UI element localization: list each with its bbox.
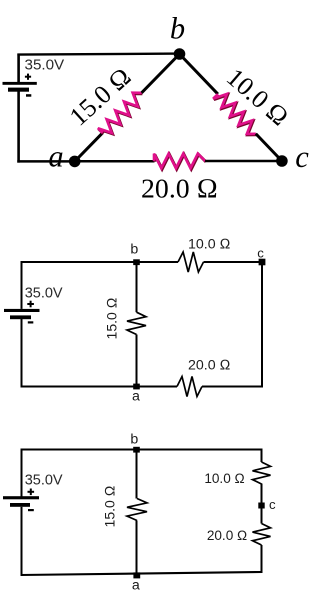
wire: top circuit, left vertical battery bottom lead [17, 92, 20, 163]
svg-text:a: a [132, 577, 140, 593]
svg-text:c: c [269, 497, 276, 512]
svg-text:20.0 Ω: 20.0 Ω [188, 358, 231, 374]
battery + terminal label (bottom circuit) [28, 489, 35, 496]
wire: top circuit, diagonal node a to 15-ohm resistor [75, 133, 103, 162]
svg-text:15.0 Ω: 15.0 Ω [64, 62, 137, 132]
wire: bottom circuit, right vertical top lead to 10-ohm resistor [261, 450, 263, 463]
wire: bottom circuit, top horizontal (battery to node b to right) [21, 449, 263, 451]
node a junction dot (top circuit) [69, 156, 81, 168]
resistor 15.0 ohm (top circuit, magenta zigzag on left diagonal) [98, 93, 142, 134]
svg-text:c: c [295, 140, 309, 174]
wire: middle circuit, left vertical battery top lead [21, 261, 23, 309]
resistor 20.0 ohm (top circuit, magenta zigzag) [154, 154, 206, 170]
resistor 20.0 ohm (bottom circuit, vertical zigzag) [253, 524, 271, 546]
wire: top circuit, bottom from node a to resistor [75, 160, 155, 163]
svg-text:35.0V: 35.0V [25, 472, 63, 488]
wire: middle circuit, center vertical node b to 15-ohm resistor [136, 262, 138, 312]
svg-text:20.0 Ω: 20.0 Ω [207, 528, 248, 543]
wire: middle circuit, center vertical 15-ohm resistor to node a [136, 335, 138, 387]
svg-text:10.0 Ω: 10.0 Ω [221, 63, 294, 132]
svg-text:c: c [257, 246, 264, 261]
node a junction square (middle circuit) [133, 384, 140, 390]
battery - terminal label (top circuit) [26, 94, 31, 97]
resistor 20.0 ohm (middle circuit, horizontal zigzag) [177, 377, 202, 397]
battery 35.0V (middle circuit) plates [4, 309, 40, 319]
wire: middle circuit, bottom segment resistor to node a [137, 386, 178, 388]
svg-text:a: a [48, 140, 63, 174]
svg-text:35.0V: 35.0V [25, 286, 63, 302]
wire: bottom circuit, right vertical resistor to node c [261, 484, 263, 524]
wire: middle circuit, top segment resistor to node c [204, 261, 264, 263]
wire: top circuit, top horizontal from battery to node b [17, 54, 179, 55]
svg-text:b: b [130, 432, 138, 448]
battery - terminal label (middle circuit) [28, 321, 34, 323]
battery + terminal label (middle circuit) [27, 301, 34, 308]
svg-text:15.0 Ω: 15.0 Ω [104, 297, 120, 339]
resistor 10.0 ohm (top circuit, magenta zigzag on right diagonal) [213, 94, 257, 135]
node b junction dot (top circuit) [174, 48, 186, 60]
wire: top circuit, bottom from resistor to node c [205, 160, 282, 163]
node b junction square (bottom circuit) [133, 447, 140, 453]
svg-text:35.0V: 35.0V [25, 57, 66, 74]
wire: top circuit, diagonal 10-ohm resistor to node c [256, 134, 282, 161]
wire: bottom circuit, bottom horizontal [21, 572, 263, 575]
node c junction dot (top circuit) [276, 155, 288, 167]
resistor 15.0 ohm (bottom circuit, vertical zigzag) [127, 499, 147, 521]
svg-text:20.0 Ω: 20.0 Ω [141, 173, 218, 204]
wire: bottom circuit, left vertical battery top lead [21, 449, 23, 498]
battery 35.0V (top circuit) plates [3, 82, 37, 92]
svg-text:10.0 Ω: 10.0 Ω [204, 471, 245, 486]
svg-text:15.0 Ω: 15.0 Ω [102, 485, 118, 527]
battery - terminal label (bottom circuit) [28, 509, 34, 511]
node a junction square (bottom circuit) [133, 572, 140, 578]
wire: middle circuit, top left segment (battery to node b) [21, 261, 137, 263]
battery + terminal label (top circuit) [25, 74, 31, 80]
wire: middle circuit, bottom right segment (c corner to 20-ohm resistor) [202, 386, 263, 388]
wire: top circuit, diagonal node b to 10-ohm resistor [180, 54, 218, 94]
wire: bottom circuit, left vertical battery bottom lead [21, 507, 23, 576]
node c junction square (bottom circuit) [258, 503, 264, 509]
wire: top circuit, left vertical battery top lead [17, 54, 20, 84]
svg-text:10.0 Ω: 10.0 Ω [188, 236, 231, 252]
wire: bottom circuit, center vertical node b to 15-ohm resistor [136, 450, 138, 499]
wire: bottom circuit, right vertical resistor to bottom [261, 545, 263, 573]
wire: middle circuit, top segment node b to 10-ohm resistor [137, 261, 179, 263]
battery 35.0V (bottom circuit) plates [3, 496, 39, 507]
resistor 10.0 ohm (bottom circuit, vertical zigzag) [253, 462, 271, 484]
node b junction square (middle circuit) [133, 259, 140, 265]
wire: bottom circuit, center vertical 15-ohm resistor to node a [136, 521, 138, 576]
svg-text:a: a [132, 388, 140, 404]
wire: middle circuit, bottom left segment node a to battery [21, 386, 137, 388]
resistor 10.0 ohm (middle circuit, horizontal zigzag) [178, 252, 204, 272]
wire: middle circuit, left vertical battery bottom lead [21, 319, 23, 388]
resistor 15.0 ohm (middle circuit, vertical zigzag) [127, 312, 146, 334]
wire: top circuit, bottom left from battery to node a [17, 160, 74, 163]
wire: top circuit, diagonal 15-ohm resistor to node b [142, 54, 180, 93]
node c junction square (middle circuit) [259, 259, 266, 266]
wire: middle circuit, right vertical node c to bottom [261, 261, 263, 388]
svg-text:b: b [130, 241, 138, 257]
svg-text:b: b [170, 12, 185, 46]
